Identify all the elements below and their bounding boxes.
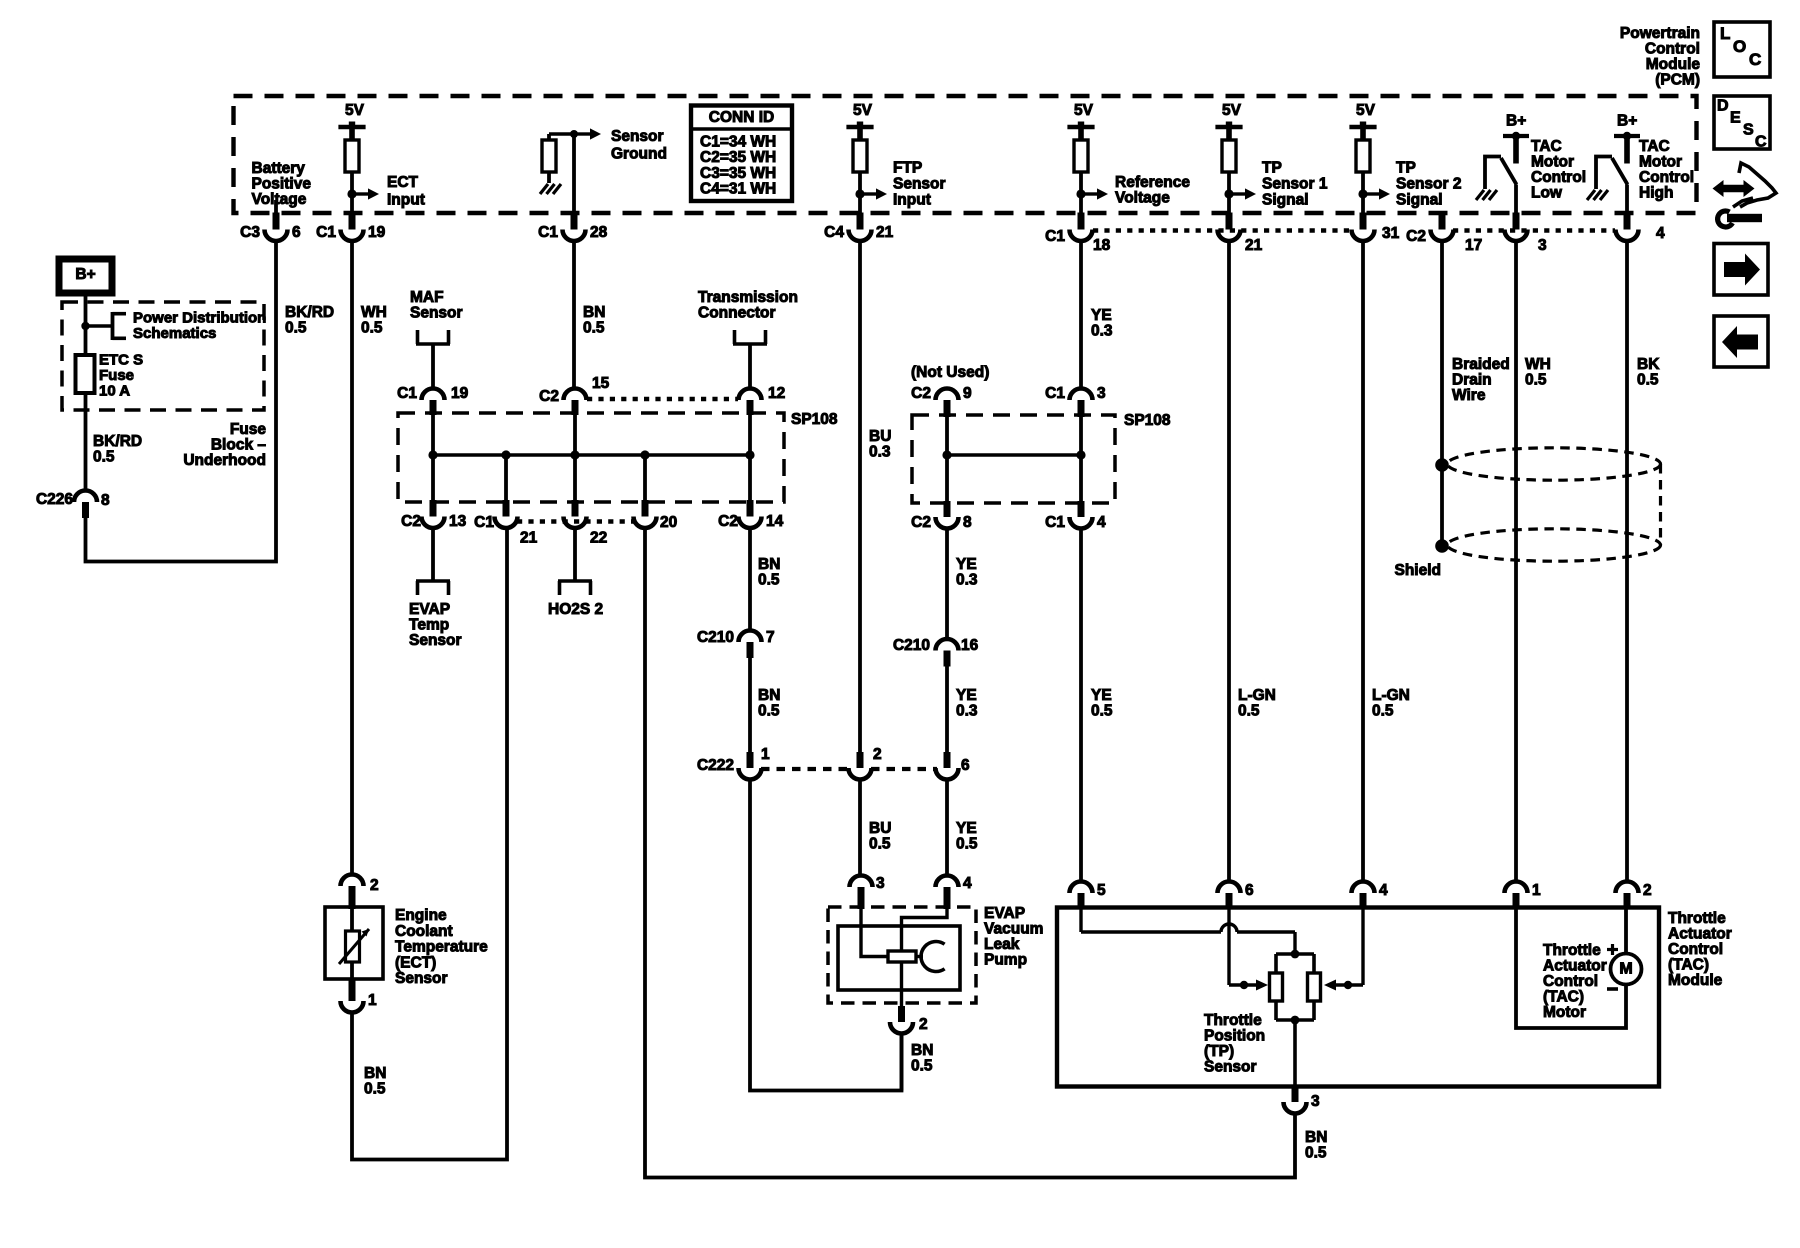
wire C210 16 to C222 6 xyxy=(945,667,949,753)
svg-text:15: 15 xyxy=(592,375,610,392)
svg-text:Battery: Battery xyxy=(252,160,306,177)
svg-text:High: High xyxy=(1639,185,1673,202)
svg-text:BN: BN xyxy=(911,1042,933,1059)
svg-text:SP108: SP108 xyxy=(791,411,838,428)
EVAP pump inner box xyxy=(838,926,960,990)
svg-text:0.5: 0.5 xyxy=(758,703,780,720)
svg-text:BN: BN xyxy=(758,687,780,704)
svg-text:Motor: Motor xyxy=(1531,154,1574,171)
shield upper ellipse xyxy=(1448,448,1661,480)
svg-text:C2: C2 xyxy=(1406,228,1426,245)
svg-text:C1: C1 xyxy=(538,224,558,241)
svg-text:1: 1 xyxy=(761,746,770,763)
connector C222 pin 1 xyxy=(747,752,754,768)
svg-text:B+: B+ xyxy=(1506,113,1526,130)
svg-text:0.5: 0.5 xyxy=(583,320,605,337)
TP sensor wiring inside TAC xyxy=(1079,909,1082,932)
svg-text:E: E xyxy=(1730,109,1741,126)
SP108 right pin C1 4 xyxy=(1078,501,1085,517)
dashed connector line C222 1-2-6 xyxy=(761,767,849,771)
icon LOC box xyxy=(1714,22,1770,77)
icon left arrow box xyxy=(1714,316,1768,367)
svg-text:Actuator: Actuator xyxy=(1543,958,1607,975)
svg-text:0.5: 0.5 xyxy=(285,320,307,337)
svg-text:D: D xyxy=(1717,97,1729,114)
dotted connector line 21-22-20 xyxy=(517,519,634,523)
svg-text:TAC: TAC xyxy=(1639,138,1670,155)
SP108 right pin C2 8 xyxy=(944,501,951,517)
svg-text:Braided: Braided xyxy=(1452,356,1510,373)
svg-text:C: C xyxy=(1749,50,1761,69)
svg-text:YE: YE xyxy=(1091,687,1112,704)
svg-text:C1: C1 xyxy=(1045,228,1065,245)
svg-text:0.5: 0.5 xyxy=(1091,703,1113,720)
switch TAC motor control high xyxy=(1596,157,1612,190)
svg-text:3: 3 xyxy=(1311,1093,1320,1110)
fuse ETC S 10A xyxy=(76,355,95,393)
svg-text:M: M xyxy=(1619,960,1632,977)
svg-text:Powertrain: Powertrain xyxy=(1620,25,1700,42)
svg-text:YE: YE xyxy=(956,820,977,837)
TAC pin 5 xyxy=(1070,882,1093,894)
svg-text:C2: C2 xyxy=(539,388,559,405)
svg-text:(TP): (TP) xyxy=(1204,1043,1234,1060)
svg-text:C210: C210 xyxy=(893,637,930,654)
svg-text:3: 3 xyxy=(876,875,885,892)
svg-text:0.5: 0.5 xyxy=(364,1081,386,1098)
svg-text:Coolant: Coolant xyxy=(395,923,453,940)
svg-text:8: 8 xyxy=(101,492,110,509)
svg-text:Throttle: Throttle xyxy=(1543,942,1601,959)
wire PCM 21 to TAC pin 6 xyxy=(1227,241,1231,882)
wire B+ down through fuse xyxy=(84,293,88,355)
svg-text:Connector: Connector xyxy=(698,305,776,322)
svg-text:Fuse: Fuse xyxy=(99,367,134,384)
svg-text:Throttle: Throttle xyxy=(1668,910,1726,927)
svg-text:31: 31 xyxy=(1382,225,1400,242)
svg-text:Control: Control xyxy=(1531,169,1586,186)
ECT sensor box xyxy=(325,907,383,979)
svg-text:Schematics: Schematics xyxy=(133,325,216,342)
ECT sensor pin 2 connector xyxy=(341,875,364,887)
svg-text:4: 4 xyxy=(1379,882,1388,899)
svg-text:0.5: 0.5 xyxy=(1305,1145,1327,1162)
svg-text:C1: C1 xyxy=(1045,514,1065,531)
SP108 right internal bus xyxy=(947,453,1081,457)
svg-text:17: 17 xyxy=(1465,237,1482,254)
SP108 pin C1 19 xyxy=(422,389,445,401)
svg-text:ECT: ECT xyxy=(387,174,419,191)
svg-text:12: 12 xyxy=(768,385,785,402)
svg-text:14: 14 xyxy=(766,513,784,530)
svg-text:Control: Control xyxy=(1668,941,1723,958)
connector C210 pin 16 xyxy=(936,639,959,651)
svg-text:Voltage: Voltage xyxy=(1115,190,1170,207)
svg-text:C1: C1 xyxy=(397,385,417,402)
svg-text:Sensor: Sensor xyxy=(409,632,462,649)
svg-text:5V: 5V xyxy=(1222,102,1242,119)
EVAP temp sensor symbol xyxy=(431,528,435,581)
svg-text:L: L xyxy=(1720,24,1730,43)
PCM pin C2 17 xyxy=(1439,213,1446,230)
svg-text:(PCM): (PCM) xyxy=(1655,72,1700,89)
SP108 right pin C1 3 xyxy=(1070,389,1093,401)
svg-text:0.5: 0.5 xyxy=(1372,703,1394,720)
svg-text:Sensor 1: Sensor 1 xyxy=(1262,176,1328,193)
svg-text:0.5: 0.5 xyxy=(1238,703,1260,720)
PCM pin 3 xyxy=(1513,213,1520,230)
svg-text:C2: C2 xyxy=(911,514,931,531)
svg-text:0.5: 0.5 xyxy=(93,449,115,466)
svg-text:22: 22 xyxy=(590,530,607,547)
wire PCM C4 21 to C222 2 xyxy=(858,241,862,752)
svg-text:10 A: 10 A xyxy=(99,383,130,400)
svg-text:Signal: Signal xyxy=(1262,192,1309,209)
wire SP108 C2 8 to C210 16 xyxy=(945,529,949,640)
svg-text:1: 1 xyxy=(1532,882,1541,899)
svg-text:FTP: FTP xyxy=(893,160,922,177)
svg-text:2: 2 xyxy=(1643,882,1652,899)
svg-text:Sensor: Sensor xyxy=(395,970,448,987)
EVAP pump pin 2 connector xyxy=(898,1006,905,1022)
svg-text:SP108: SP108 xyxy=(1124,412,1171,429)
svg-text:C2: C2 xyxy=(718,513,738,530)
svg-text:B+: B+ xyxy=(1617,113,1637,130)
svg-text:TAC: TAC xyxy=(1531,138,1562,155)
wire C210 7 to C222 1 xyxy=(748,658,752,752)
PCM pin 21 xyxy=(1226,213,1233,230)
sensor ground resistor xyxy=(542,140,556,172)
svg-text:EVAP: EVAP xyxy=(409,601,450,618)
svg-text:5V: 5V xyxy=(345,102,365,119)
svg-text:(TAC): (TAC) xyxy=(1668,957,1709,974)
svg-text:C222: C222 xyxy=(697,757,734,774)
svg-text:3: 3 xyxy=(1538,237,1547,254)
svg-text:0.5: 0.5 xyxy=(758,572,780,589)
TAC motor polarity marks xyxy=(1607,948,1618,951)
icon double arrow with wrench xyxy=(1713,180,1755,197)
svg-text:Sensor: Sensor xyxy=(893,176,946,193)
svg-text:(Not Used): (Not Used) xyxy=(911,364,989,381)
TAC pin 2 xyxy=(1616,882,1639,894)
shield side line xyxy=(1659,464,1662,545)
svg-text:Reference: Reference xyxy=(1115,174,1190,191)
svg-text:5: 5 xyxy=(1097,882,1106,899)
svg-text:MAF: MAF xyxy=(410,289,444,306)
connector C222 pin 2 xyxy=(857,752,864,768)
svg-text:28: 28 xyxy=(590,224,608,241)
svg-text:4: 4 xyxy=(1097,514,1106,531)
svg-text:2: 2 xyxy=(919,1016,928,1033)
svg-text:3: 3 xyxy=(1097,385,1106,402)
svg-text:BN: BN xyxy=(364,1065,386,1082)
svg-text:C2: C2 xyxy=(401,513,421,530)
EVAP pump motor symbol xyxy=(916,955,923,958)
svg-text:Voltage: Voltage xyxy=(252,191,307,208)
ECT thermistor symbol xyxy=(346,931,360,962)
dotted connector line PCM C1 pins 18-21-31 xyxy=(1093,228,1351,232)
EVAP pump pin 3 connector xyxy=(850,876,873,887)
svg-text:Transmission: Transmission xyxy=(698,289,798,306)
wire C222 1 to EVAP pump ground run xyxy=(750,780,902,1091)
svg-text:WH: WH xyxy=(1525,356,1551,373)
svg-text:YE: YE xyxy=(956,556,977,573)
svg-text:0.5: 0.5 xyxy=(361,320,383,337)
svg-text:21: 21 xyxy=(876,224,894,241)
svg-text:C2: C2 xyxy=(911,385,931,402)
svg-text:19: 19 xyxy=(368,224,386,241)
svg-text:0.5: 0.5 xyxy=(956,836,978,853)
connector C226 pin 8 xyxy=(74,491,97,502)
svg-text:Leak: Leak xyxy=(984,936,1020,953)
TP sensor potentiometer xyxy=(1291,950,1300,959)
svg-text:WH: WH xyxy=(361,304,387,321)
svg-text:Module: Module xyxy=(1668,972,1723,989)
svg-text:Sensor: Sensor xyxy=(410,305,463,322)
svg-text:L-GN: L-GN xyxy=(1238,687,1276,704)
svg-text:BU: BU xyxy=(869,428,891,445)
SP108 pin 22 xyxy=(572,500,579,517)
connector C210 pin 7 xyxy=(739,631,762,643)
EVAP pump solenoid xyxy=(888,951,916,962)
PCM pin 4 xyxy=(1624,213,1631,230)
SP108 pin C2 15 xyxy=(564,389,587,401)
shield junction dots xyxy=(1435,458,1449,472)
svg-text:BN: BN xyxy=(758,556,780,573)
svg-text:Power Distribution: Power Distribution xyxy=(133,310,266,327)
TAC pin 1 xyxy=(1505,882,1528,894)
svg-text:Input: Input xyxy=(387,192,425,209)
dotted connector line 15-12 xyxy=(587,397,738,401)
svg-text:Positive: Positive xyxy=(252,176,312,193)
svg-text:4: 4 xyxy=(963,875,972,892)
svg-text:4: 4 xyxy=(1656,225,1665,242)
svg-text:2: 2 xyxy=(370,877,379,894)
svg-text:2: 2 xyxy=(873,746,882,763)
wire SP108 C1 4 to TAC pin 5 xyxy=(1079,529,1083,882)
svg-text:19: 19 xyxy=(451,385,469,402)
svg-text:BK/RD: BK/RD xyxy=(93,433,142,450)
TAC pin 4 xyxy=(1352,882,1375,894)
svg-text:Temp: Temp xyxy=(409,617,449,634)
svg-text:Shield: Shield xyxy=(1394,562,1441,579)
svg-text:0.3: 0.3 xyxy=(956,572,978,589)
svg-text:7: 7 xyxy=(766,629,775,646)
PCM pin C1 18 xyxy=(1078,213,1085,230)
svg-text:6: 6 xyxy=(961,757,970,774)
svg-text:Actuator: Actuator xyxy=(1668,926,1732,943)
svg-text:5V: 5V xyxy=(1074,102,1094,119)
splice SP108 left dashed box xyxy=(398,413,784,502)
svg-text:(TAC): (TAC) xyxy=(1543,989,1584,1006)
svg-text:C2=35 WH: C2=35 WH xyxy=(700,149,776,166)
wire ECT pin 1 to splice riser xyxy=(352,528,507,1160)
svg-text:BK: BK xyxy=(1637,356,1660,373)
wire PCM 3 to TAC pin 1 xyxy=(1514,241,1518,882)
svg-text:Sensor: Sensor xyxy=(611,128,664,145)
svg-text:EVAP: EVAP xyxy=(984,905,1025,922)
svg-text:C: C xyxy=(1755,133,1767,150)
svg-text:18: 18 xyxy=(1093,237,1111,254)
SP108 pin C1 21 xyxy=(503,500,510,517)
TAC pin 6 xyxy=(1218,882,1241,894)
wire C222 6 to EVAP pump pin 4 xyxy=(945,780,949,876)
svg-text:0.5: 0.5 xyxy=(911,1058,933,1075)
svg-text:Sensor 2: Sensor 2 xyxy=(1396,176,1461,193)
svg-text:O: O xyxy=(1733,37,1746,56)
svg-text:C1: C1 xyxy=(474,514,494,531)
TAC motor box xyxy=(1516,909,1626,1028)
svg-text:Signal: Signal xyxy=(1396,192,1443,209)
svg-text:20: 20 xyxy=(660,514,677,531)
B+ power symbol box xyxy=(59,259,112,293)
svg-text:1: 1 xyxy=(368,992,377,1009)
wire PCM C1 18 to SP108 right xyxy=(1079,241,1083,389)
wire PCM C1 19 to ECT sensor xyxy=(350,241,354,875)
svg-text:CONN ID: CONN ID xyxy=(709,109,774,126)
svg-text:C1: C1 xyxy=(316,224,336,241)
PCM pin C3 6 xyxy=(273,213,280,230)
svg-text:C210: C210 xyxy=(697,629,734,646)
svg-text:S: S xyxy=(1743,121,1754,138)
switch TAC motor control low xyxy=(1485,157,1501,190)
SP108 internal bus xyxy=(433,453,750,457)
svg-text:C4=31 WH: C4=31 WH xyxy=(700,181,776,198)
svg-text:C1: C1 xyxy=(1045,385,1065,402)
svg-text:Motor: Motor xyxy=(1639,154,1682,171)
svg-text:Vacuum: Vacuum xyxy=(984,921,1043,938)
svg-text:Control: Control xyxy=(1543,973,1598,990)
dotted connector line PCM C2 pins 17-3-4 xyxy=(1453,228,1615,232)
PCM dashed box outline xyxy=(234,96,1697,213)
svg-text:Input: Input xyxy=(893,192,931,209)
svg-text:5V: 5V xyxy=(1356,102,1376,119)
svg-text:C1=34 WH: C1=34 WH xyxy=(700,134,776,151)
svg-text:YE: YE xyxy=(1091,307,1112,324)
svg-text:Pump: Pump xyxy=(984,952,1027,969)
shield lower ellipse xyxy=(1448,529,1661,561)
svg-text:Control: Control xyxy=(1639,169,1694,186)
wire PCM C1 28 to SP108 xyxy=(572,241,576,389)
braided drain wire from PCM C2 17 xyxy=(1440,241,1444,546)
svg-text:5V: 5V xyxy=(853,102,873,119)
svg-text:BN: BN xyxy=(1305,1129,1327,1146)
power distribution schematics tap xyxy=(81,322,89,330)
svg-text:Motor: Motor xyxy=(1543,1004,1586,1021)
svg-text:C3=35 WH: C3=35 WH xyxy=(700,165,776,182)
svg-text:21: 21 xyxy=(520,530,538,547)
SP108 pin C2 14 xyxy=(747,500,754,517)
PCM pin C1 28 xyxy=(571,213,578,230)
CONN ID table xyxy=(691,106,792,202)
TP sensor wiper arrows xyxy=(1227,909,1230,985)
svg-text:9: 9 xyxy=(963,385,972,402)
svg-text:BN: BN xyxy=(583,304,605,321)
svg-text:BU: BU xyxy=(869,820,891,837)
icon right arrow box xyxy=(1714,244,1768,296)
svg-text:Throttle: Throttle xyxy=(1204,1012,1262,1029)
svg-text:Fuse: Fuse xyxy=(230,421,267,438)
svg-text:0.5: 0.5 xyxy=(1525,372,1547,389)
wire SP108 20 to TP sensor return xyxy=(645,528,1295,1178)
EVAP pump pin 4 connector xyxy=(936,876,959,887)
svg-text:21: 21 xyxy=(1245,237,1263,254)
svg-text:8: 8 xyxy=(963,514,972,531)
splice SP108 right dashed box xyxy=(912,415,1115,503)
svg-text:6: 6 xyxy=(292,224,301,241)
ECT sensor pin 1 connector xyxy=(349,979,356,1001)
sensor ground arrow and wire inside PCM xyxy=(570,130,578,138)
wire EVAP pump pin 2 ground xyxy=(900,1034,904,1091)
wire C226 to PCM pin C3 6 xyxy=(86,241,277,562)
ground symbol under sensor ground resistor xyxy=(540,184,548,194)
svg-text:L-GN: L-GN xyxy=(1372,687,1410,704)
connector C222 pin 6 xyxy=(944,752,951,768)
icon DESC box xyxy=(1714,96,1770,149)
TP sensor pin 3 connector xyxy=(1292,1085,1299,1102)
PCM pin C4 21 xyxy=(857,213,864,230)
svg-text:Module: Module xyxy=(1646,56,1701,73)
SP108 pin 20 xyxy=(642,500,649,517)
svg-text:0.5: 0.5 xyxy=(869,836,891,853)
svg-text:Block –: Block – xyxy=(211,437,267,454)
fuse block underhood dashed box xyxy=(62,302,264,410)
svg-text:Position: Position xyxy=(1204,1028,1265,1045)
HO2S 2 symbol xyxy=(573,528,577,581)
svg-text:Engine: Engine xyxy=(395,907,447,924)
PCM pin 31 xyxy=(1360,213,1367,230)
TAC motor M circle xyxy=(1611,954,1642,985)
SP108 pin C2 13 xyxy=(430,500,437,517)
svg-text:16: 16 xyxy=(961,637,979,654)
svg-text:HO2S 2: HO2S 2 xyxy=(548,601,603,618)
svg-text:YE: YE xyxy=(956,687,977,704)
TAC module box xyxy=(1057,908,1659,1087)
svg-text:0.3: 0.3 xyxy=(869,444,891,461)
EVAP vacuum leak pump dashed box xyxy=(828,907,976,1003)
svg-text:TP: TP xyxy=(1262,160,1282,177)
wire PCM 4 to TAC pin 2 xyxy=(1625,241,1629,882)
svg-text:TP: TP xyxy=(1396,160,1416,177)
wire fuse to C226 xyxy=(84,393,88,491)
svg-text:13: 13 xyxy=(449,513,467,530)
svg-text:C3: C3 xyxy=(240,224,260,241)
svg-text:Underhood: Underhood xyxy=(183,452,266,469)
svg-text:Sensor: Sensor xyxy=(1204,1059,1257,1076)
svg-text:C4: C4 xyxy=(824,224,844,241)
svg-text:C226: C226 xyxy=(36,491,73,508)
svg-text:6: 6 xyxy=(1245,882,1254,899)
svg-text:0.3: 0.3 xyxy=(1091,323,1113,340)
svg-text:Control: Control xyxy=(1645,41,1700,58)
wire SP108 C2 14 to C210 pin 7 xyxy=(748,528,752,631)
svg-text:ETC S: ETC S xyxy=(99,352,143,369)
svg-text:Temperature: Temperature xyxy=(395,939,488,956)
svg-text:BK/RD: BK/RD xyxy=(285,304,334,321)
wire C222 2 to EVAP pump pin 3 xyxy=(858,780,862,876)
svg-text:0.5: 0.5 xyxy=(1637,372,1659,389)
svg-text:Low: Low xyxy=(1531,185,1563,202)
svg-text:B+: B+ xyxy=(75,266,95,283)
SP108 junction dots xyxy=(428,450,437,459)
PCM pin C1 19 xyxy=(349,213,356,230)
svg-text:Wire: Wire xyxy=(1452,387,1486,404)
SP108 pin 12 xyxy=(739,389,762,401)
svg-text:Ground: Ground xyxy=(611,146,667,163)
svg-text:Drain: Drain xyxy=(1452,372,1492,389)
svg-text:0.3: 0.3 xyxy=(956,703,978,720)
wire PCM 31 to TAC pin 4 xyxy=(1361,241,1365,882)
